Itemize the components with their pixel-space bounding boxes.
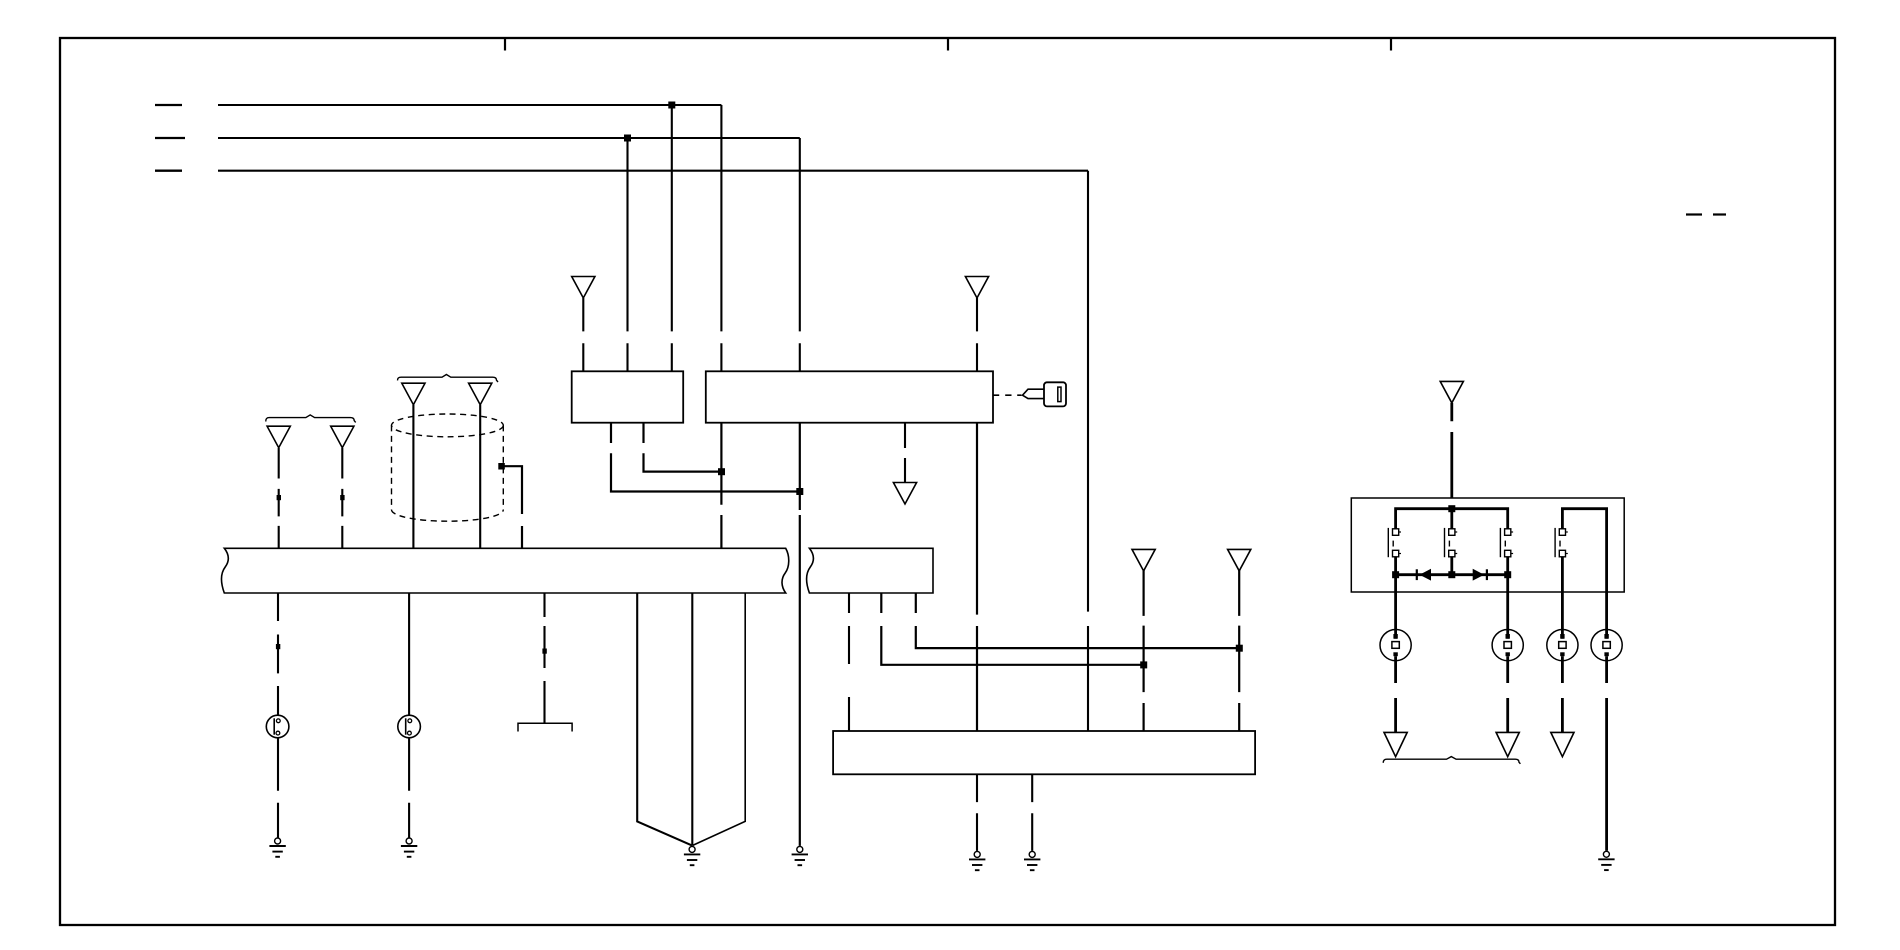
- key dashed lead: [993, 394, 1022, 396]
- border tick 1: [504, 39, 506, 51]
- wire T1 to bar: [278, 448, 280, 548]
- lamp 2: [1492, 630, 1523, 661]
- junction on bus 2: [624, 135, 631, 142]
- lamp 3: [1547, 630, 1578, 661]
- wire box A out 1: [644, 423, 722, 472]
- relay switch S3: [1500, 528, 1513, 557]
- wire bar2 right run 2: [916, 593, 1239, 648]
- bulb 1: [266, 715, 289, 738]
- connector triangle T7: [1440, 381, 1463, 403]
- wire bulb 1 to ground: [277, 738, 279, 838]
- wire bus1 to box B: [720, 105, 722, 371]
- brace over T1 T2: [266, 415, 356, 423]
- arrow out symbol: [893, 483, 916, 505]
- wire box C ground 1: [976, 774, 978, 851]
- border tick 3: [1390, 39, 1392, 51]
- bulb 2: [398, 715, 421, 738]
- connector triangle T3: [402, 383, 425, 405]
- connector box A: [572, 371, 684, 422]
- wire box B to box C: [976, 423, 978, 731]
- wire diode bus to lamp 1: [1394, 575, 1397, 630]
- bus wire 1: [218, 104, 721, 106]
- bus wire 2: [218, 137, 800, 139]
- wire T6 to box B: [976, 298, 978, 371]
- wire box A out 2: [611, 423, 800, 492]
- connector triangle T6: [965, 277, 988, 299]
- connector triangle T5: [572, 277, 595, 299]
- lamp 4: [1591, 630, 1622, 661]
- wire S4 down: [1561, 557, 1564, 630]
- diode D2: [1473, 569, 1487, 581]
- wire bar1 to bulb 1: [277, 593, 279, 715]
- arrow lamp 2: [1496, 732, 1519, 756]
- lamp 1: [1380, 630, 1411, 661]
- wire box B to ground run: [799, 423, 801, 846]
- ground G6: [1024, 851, 1040, 870]
- connector triangle T2: [331, 426, 354, 448]
- wire box C ground 2: [1031, 774, 1033, 851]
- ground G5: [969, 851, 985, 870]
- junction on bus 1: [668, 102, 675, 109]
- bus wire 3 stub: [155, 170, 182, 172]
- ground G2: [401, 838, 417, 857]
- wire S1 to diode bus: [1394, 557, 1397, 575]
- relay box: [1351, 498, 1624, 592]
- splice mark bulb1 wire: [276, 644, 280, 649]
- relay feed bus left: [1396, 509, 1508, 529]
- wire bus3 down: [1087, 171, 1089, 731]
- arrow lamp 1: [1384, 732, 1407, 756]
- relay feed bus right: [1562, 509, 1606, 592]
- fuel tank dashed cylinder: [392, 414, 504, 521]
- multi wire V left: [637, 593, 692, 845]
- wire bar2 to box C: [848, 593, 850, 731]
- junction diode bus 3: [1504, 571, 1511, 578]
- splice mark T1 wire: [277, 495, 281, 500]
- wire lamp 3 to arrow: [1561, 661, 1564, 733]
- relay switch S4: [1555, 528, 1568, 557]
- diode D1: [1417, 569, 1431, 581]
- wire bus2 to box A: [626, 138, 628, 371]
- bus wire 2 stub: [155, 137, 185, 139]
- wire bar2 right run 1: [881, 593, 1143, 665]
- junction relay feed: [1448, 505, 1455, 512]
- wire lamp 1 to arrow: [1394, 661, 1397, 733]
- bracket terminal symbol: [518, 723, 572, 731]
- connector triangle T9: [1228, 549, 1251, 571]
- wire diode bus to lamp 2: [1506, 575, 1509, 630]
- connector triangle T1: [267, 426, 290, 448]
- splice mark bracket wire: [542, 649, 546, 654]
- wire S3 to diode bus: [1506, 557, 1509, 575]
- ground G1: [269, 838, 285, 857]
- wire relay right to lamp 4: [1605, 592, 1608, 630]
- harness bar 1: [222, 548, 789, 593]
- diode bus: [1396, 573, 1508, 576]
- harness bar 2: [807, 548, 933, 593]
- bus wire 3: [218, 170, 1088, 172]
- junction box A out 1: [718, 468, 725, 475]
- tank tap wire: [502, 466, 523, 548]
- wire T3 to bar: [412, 405, 414, 549]
- wire box B to bar 1: [720, 423, 722, 549]
- multi wire V middle: [691, 593, 693, 846]
- connector triangle T4: [469, 383, 492, 405]
- arrow lamp 3: [1551, 732, 1574, 756]
- wire box B arrow out: [904, 423, 906, 483]
- connector triangle T8: [1132, 549, 1155, 571]
- relay switch S2: [1445, 528, 1458, 557]
- wire bus2 to box B: [799, 138, 801, 371]
- wire T7 to relay box: [1450, 403, 1453, 509]
- ignition key symbol: [1023, 382, 1067, 406]
- wire bulb 2 to ground: [408, 738, 410, 838]
- relay switch S1: [1388, 528, 1401, 557]
- page reference dash B: [1713, 213, 1726, 215]
- junction run 2: [1236, 645, 1243, 652]
- multi wire V right: [693, 593, 746, 845]
- connector box B: [706, 371, 993, 422]
- wire bar1 to bracket: [543, 593, 545, 723]
- wire T5 to box A: [582, 298, 584, 371]
- wire bar1 to bulb 2: [408, 593, 410, 715]
- wire lamp 4 to ground: [1605, 661, 1608, 851]
- wire T9 to box C: [1238, 570, 1240, 731]
- junction box A out 2: [796, 488, 803, 495]
- wire T8 to box C: [1142, 570, 1144, 731]
- bus wire 1 stub: [155, 104, 182, 106]
- page reference dash A: [1686, 213, 1702, 215]
- ground G3: [684, 846, 700, 865]
- wire S2 to diode bus: [1450, 557, 1453, 575]
- wire bus1 to box A: [671, 105, 673, 371]
- wire lamp 2 to arrow: [1506, 661, 1509, 733]
- tank tap junction: [498, 463, 505, 470]
- splice mark T2 wire: [340, 495, 344, 500]
- ground G4: [792, 846, 808, 865]
- brace under arrows: [1383, 757, 1520, 764]
- border tick 2: [947, 39, 949, 51]
- ground G7: [1598, 851, 1614, 870]
- junction diode bus 2: [1448, 571, 1455, 578]
- wire T4 to bar: [479, 405, 481, 549]
- junction diode bus 1: [1392, 571, 1399, 578]
- wire T2 to bar: [341, 448, 343, 548]
- connector box C: [833, 731, 1255, 774]
- junction run 1: [1140, 661, 1147, 668]
- brace over fuel unit: [398, 375, 498, 383]
